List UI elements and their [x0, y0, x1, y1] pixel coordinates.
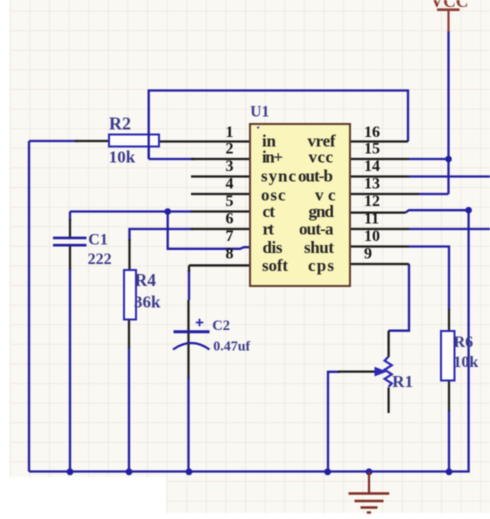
svg-text:3: 3 [226, 158, 234, 175]
svg-text:16: 16 [364, 124, 380, 141]
svg-text:8: 8 [226, 246, 234, 263]
svg-text:36k: 36k [134, 293, 161, 312]
svg-text:ct: ct [263, 202, 276, 221]
svg-text:9: 9 [364, 246, 372, 263]
svg-text:vcc: vcc [309, 148, 334, 167]
svg-text:11: 11 [364, 211, 379, 228]
svg-text:10k: 10k [109, 148, 136, 167]
svg-text:VCC: VCC [431, 0, 469, 11]
svg-text:222: 222 [88, 251, 112, 268]
svg-text:12: 12 [364, 193, 380, 210]
svg-text:5: 5 [226, 193, 234, 210]
svg-text:4: 4 [226, 176, 234, 193]
svg-text:U1: U1 [250, 103, 269, 120]
svg-text:shut: shut [304, 238, 334, 257]
svg-text:7: 7 [226, 228, 234, 245]
svg-text:15: 15 [364, 141, 380, 158]
svg-text:6: 6 [226, 211, 234, 228]
svg-text:14: 14 [364, 158, 380, 175]
svg-text:gnd: gnd [309, 202, 335, 221]
svg-text:R4: R4 [135, 270, 157, 290]
svg-text:cps: cps [308, 256, 334, 275]
svg-text:C2: C2 [212, 318, 230, 334]
svg-text:10: 10 [364, 228, 380, 245]
svg-text:10k: 10k [453, 354, 478, 371]
svg-text:R2: R2 [109, 114, 131, 134]
svg-text:R6: R6 [454, 334, 474, 351]
svg-text:in+: in+ [262, 148, 283, 167]
svg-text:2: 2 [226, 141, 234, 158]
svg-text:out-b: out-b [298, 167, 333, 186]
svg-text:13: 13 [364, 176, 380, 193]
svg-text:rt: rt [263, 220, 275, 239]
svg-text:0.47uf: 0.47uf [213, 340, 250, 355]
svg-text:1: 1 [226, 124, 234, 141]
svg-text:C1: C1 [88, 231, 108, 248]
svg-text:out-a: out-a [299, 220, 334, 239]
svg-text:R1: R1 [392, 372, 413, 391]
svg-text:soft: soft [262, 256, 288, 275]
svg-text:sync: sync [261, 167, 296, 186]
svg-text:dis: dis [263, 238, 283, 257]
